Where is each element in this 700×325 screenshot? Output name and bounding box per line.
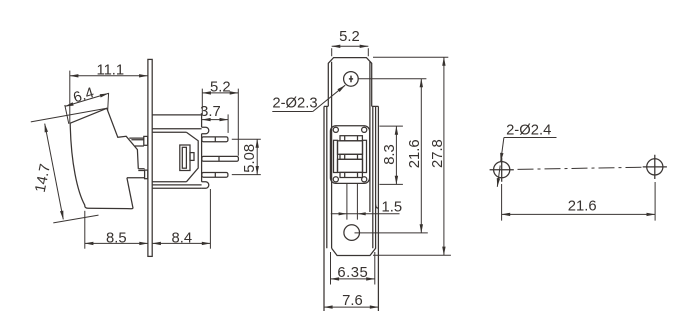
body inner top lines <box>152 129 201 132</box>
right mid wall <box>372 106 374 248</box>
frame screw bottom-left <box>333 177 338 182</box>
body inner right line with clip hook <box>376 106 379 208</box>
frame screw top-right <box>362 127 367 132</box>
svg-text:21.6: 21.6 <box>568 198 597 214</box>
body top-right chamfer <box>186 132 198 182</box>
left mounting hole <box>494 162 510 178</box>
dim 6.4 line <box>65 93 109 106</box>
body outer left edge (with 7.6 ext) <box>323 106 325 311</box>
svg-text:6.35: 6.35 <box>337 265 368 281</box>
dim 21.6 (holes) extension lines <box>502 182 655 221</box>
dim 3.7 line <box>202 119 228 121</box>
rocker lower face <box>338 159 363 172</box>
body outer right edge (with 7.6 ext) <box>377 106 379 311</box>
svg-text:7.6: 7.6 <box>342 293 363 309</box>
frame screw top-left <box>333 127 338 132</box>
dim 8.3 line <box>395 126 397 184</box>
top tab outline <box>328 58 371 107</box>
dim 7.6 line <box>324 306 378 308</box>
rocker upper face <box>338 141 363 155</box>
dim 27.8 extension lines <box>373 57 451 255</box>
centerline dash-dot <box>518 167 644 169</box>
dim 8.5 line <box>85 242 148 244</box>
tab inner left wall <box>331 62 333 249</box>
svg-text:6.4: 6.4 <box>72 85 96 106</box>
label 2-O2.3 underline <box>272 111 313 113</box>
dim 11.1 extension line <box>69 71 71 124</box>
latch housing outer <box>180 145 190 171</box>
body inner bottom lines <box>152 182 201 185</box>
dim 21.6 (holes) line <box>502 213 655 215</box>
dim 8.4 extension line <box>209 189 211 249</box>
right hole crosshair <box>643 155 667 179</box>
svg-text:5.2: 5.2 <box>210 79 231 95</box>
rocker upper tab tip <box>144 136 148 145</box>
svg-text:21.6: 21.6 <box>407 139 423 168</box>
rocker upper tab <box>129 138 144 146</box>
terminal pin 2 <box>202 156 239 161</box>
rocker middle bar <box>340 154 362 159</box>
upper ear lug <box>202 127 209 133</box>
frame screw bottom-right <box>362 177 367 182</box>
label 2-O2.4 leader tail <box>497 166 500 187</box>
svg-text:2-Ø2.4: 2-Ø2.4 <box>506 122 551 138</box>
svg-text:27.8: 27.8 <box>430 139 446 168</box>
rocker top bar <box>340 136 362 141</box>
body cover bottom <box>152 187 201 189</box>
svg-text:8.5: 8.5 <box>106 230 127 246</box>
rocker lower tab <box>127 169 145 178</box>
dim 8.5 extension line <box>84 211 86 249</box>
latch housing inner <box>182 147 186 168</box>
dim 8.3 extension lines <box>379 126 403 184</box>
svg-text:8.4: 8.4 <box>172 230 193 246</box>
dim 5.08 line <box>256 139 258 174</box>
top hole 2-O2.3 <box>344 72 359 87</box>
dim 8.4 line <box>152 242 210 244</box>
switch body cover top <box>152 115 201 127</box>
label 2-O2.3 leader <box>313 85 345 111</box>
svg-text:5.2: 5.2 <box>339 29 360 45</box>
label 2-O2.4 leader <box>501 138 504 162</box>
body right edge <box>201 134 203 182</box>
tab inner right wall <box>369 62 371 212</box>
rocker right rail <box>363 140 367 172</box>
dim 5.2 line <box>202 92 238 94</box>
svg-text:5.08: 5.08 <box>242 144 258 173</box>
dim 21.6 (front) extension lines <box>355 79 428 233</box>
svg-text:11.1: 11.1 <box>96 62 124 78</box>
terminal pin 3 <box>202 173 228 178</box>
rocker actuator outline (foot and left side) <box>70 123 133 209</box>
dim 14.7 line <box>45 124 64 220</box>
dim 14.7 extension lines <box>31 108 107 223</box>
body inner left line <box>326 106 328 248</box>
label 2-O2.4 underline <box>504 137 557 139</box>
svg-text:14.7: 14.7 <box>33 163 54 194</box>
bottom tab chamfers and bottom edge <box>332 205 376 256</box>
top hole cross <box>349 76 353 83</box>
dim 1.5 line <box>331 213 400 215</box>
dim 6.35 extension lines <box>331 252 375 285</box>
svg-text:2-Ø2.3: 2-Ø2.3 <box>272 95 317 111</box>
dim 6.4 extension lines <box>65 93 109 124</box>
dim 21.6 (front) line <box>420 79 422 233</box>
svg-text:1.5: 1.5 <box>382 199 403 215</box>
dim 6.35 line <box>331 278 375 280</box>
dim 5.2 (front) extension lines <box>332 48 369 56</box>
mounting plate <box>148 59 152 256</box>
dim 5.2 (front) line <box>332 45 369 47</box>
left hole crosshair <box>490 158 514 182</box>
bottom hole <box>344 225 360 241</box>
rocker frame <box>330 126 369 184</box>
rocker left rail <box>334 140 338 172</box>
dim 11.1 line <box>70 75 148 77</box>
rocker lower tab tip <box>145 170 148 179</box>
svg-text:8.3: 8.3 <box>382 144 398 165</box>
dim 5.08 extension lines <box>232 139 261 174</box>
rocker actuator outline (upper) <box>70 108 138 169</box>
terminal pin 1 <box>202 137 228 142</box>
lower ear lug <box>202 182 209 188</box>
dim 5.2 extension lines <box>202 89 238 156</box>
dim 1.5 extension lines <box>347 183 358 219</box>
shoulder steps <box>324 105 378 107</box>
dim 27.8 line <box>443 57 445 255</box>
svg-text:3.7: 3.7 <box>200 104 221 120</box>
right mounting hole <box>647 159 663 175</box>
dim 1.5 arrows <box>339 212 366 215</box>
dim 3.7 extension line <box>227 114 229 132</box>
latch nub <box>190 153 194 161</box>
rocker bottom bar <box>340 172 362 177</box>
